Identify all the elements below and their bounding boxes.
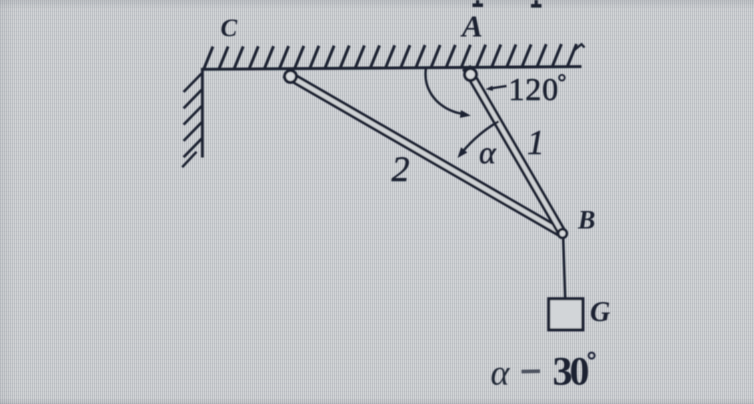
svg-text:30: 30 — [553, 349, 589, 394]
weight box G — [549, 299, 583, 330]
pin A — [465, 69, 477, 81]
svg-text:1: 1 — [527, 123, 545, 162]
ceiling hatching — [204, 44, 577, 70]
svg-text:A: A — [460, 8, 483, 43]
svg-text:2: 2 — [392, 149, 410, 189]
pin B — [558, 229, 567, 238]
alpha arc arrowhead — [458, 147, 468, 158]
bar 2 (C to B) — [284, 71, 565, 237]
svg-text:α: α — [479, 134, 497, 170]
svg-text:120: 120 — [509, 71, 559, 107]
equals dash — [522, 369, 541, 373]
ceiling line — [201, 67, 582, 70]
120 degree angle arc at A — [426, 69, 462, 114]
alpha angle arc — [463, 121, 498, 150]
ceiling hatch overshoot tick at right end — [575, 44, 585, 50]
120 arc arrowhead — [460, 110, 471, 118]
degree mark of 120 — [559, 75, 565, 81]
wall line — [201, 68, 204, 157]
string from B to weight — [563, 239, 565, 300]
leader arrowhead — [486, 86, 494, 91]
svg-text:G: G — [590, 297, 610, 328]
bar 1 (A to B) — [464, 67, 566, 237]
leader line from 120 label — [489, 86, 507, 89]
wall hatching — [184, 74, 202, 158]
degree mark of 30 — [589, 353, 595, 359]
cut-off glyph stem 1 (top edge) — [473, 0, 484, 6]
svg-text:α: α — [491, 352, 511, 392]
cut-off glyph stem 2 (top edge) — [531, 0, 542, 6]
pin C — [285, 71, 297, 83]
svg-text:C: C — [221, 15, 238, 42]
wall hatch overshoot stroke at bottom — [182, 152, 196, 167]
svg-text:B: B — [577, 206, 595, 235]
